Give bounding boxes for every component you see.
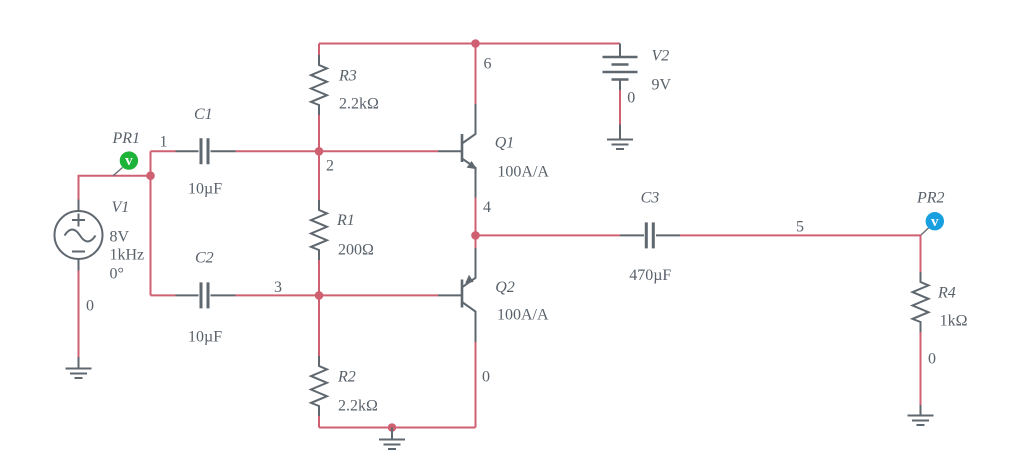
ground bottom middle [379,428,405,450]
wire net1: to C1 left [151,150,176,152]
wire net4: Q1 emitter to Q2 emitter [475,198,477,249]
svg-text:V2: V2 [652,48,670,65]
capacitor C3 [620,222,680,248]
svg-text:6: 6 [484,56,492,73]
svg-text:R3: R3 [338,67,357,84]
svg-text:0: 0 [928,351,936,368]
svg-text:R4: R4 [937,285,956,302]
transistor Q1 [438,104,477,198]
wire net2: C1 right to Q1 base [236,150,439,152]
resistor R3 [311,55,327,115]
wire net1: V1 top to junction [79,176,151,200]
svg-text:1: 1 [160,134,168,151]
junction node 0 (bottom rail) [388,423,397,432]
svg-text:1kΩ: 1kΩ [940,313,968,330]
svg-text:2: 2 [326,158,334,175]
junction node 4 [471,231,480,240]
wire net2: R3 bottom to R1 top [318,115,320,200]
wire net0: R4 bottom [920,332,922,405]
svg-text:Q2: Q2 [495,279,515,296]
ground under V1 [66,357,92,378]
wire net3: R1 bottom to R2 top [318,260,320,356]
svg-text:1kHz: 1kHz [110,247,145,264]
svg-text:4: 4 [483,199,491,216]
svg-text:v: v [125,153,133,169]
wire net0: V1 bottom [78,271,80,358]
svg-text:0: 0 [86,298,94,315]
svg-text:C1: C1 [194,106,213,123]
svg-text:5: 5 [796,219,804,236]
svg-text:100A/A: 100A/A [497,307,549,324]
voltage source V1 [55,200,103,271]
svg-text:3: 3 [274,279,282,296]
svg-text:R1: R1 [336,212,355,229]
capacitor C2 [176,282,236,308]
transistor Q2 [438,248,476,342]
svg-text:V1: V1 [112,199,130,216]
capacitor C1 [176,138,236,164]
svg-text:C2: C2 [195,250,214,267]
svg-text:100A/A: 100A/A [497,163,549,180]
wire net3: C2 left [151,294,176,296]
svg-text:2.2kΩ: 2.2kΩ [339,96,379,113]
svg-text:0: 0 [482,369,490,386]
wire net0: R2 bottom stub [318,416,320,428]
svg-text:R2: R2 [337,369,356,386]
svg-text:C3: C3 [641,190,660,207]
svg-text:9V: 9V [652,77,672,94]
svg-text:Q1: Q1 [495,134,515,151]
wire net1: vertical C1 to C2 [150,151,152,295]
svg-text:470µF: 470µF [629,267,671,284]
svg-text:PR2: PR2 [916,190,945,207]
svg-text:8V: 8V [110,229,130,246]
svg-text:v: v [931,214,939,230]
svg-text:0°: 0° [110,265,124,282]
ground under V2 [607,125,633,150]
resistor R2 [311,356,327,416]
junction node 3 [315,291,324,300]
wire net0: bottom rail [319,427,476,429]
svg-text:0: 0 [627,90,635,107]
resistor R1 [311,200,327,260]
wire net5: C3 right to R4 top [680,235,921,272]
svg-text:PR1: PR1 [112,130,141,147]
wire net6: top rail [319,43,620,45]
svg-text:2.2kΩ: 2.2kΩ [338,398,378,415]
wire net0: V2 bottom [619,90,621,125]
wire net3: C2 right to Q2 base [236,294,439,296]
wire net0: Q2 collector down [475,342,477,428]
ground under R4 [908,405,934,425]
probe PR2 [921,212,944,235]
svg-text:10µF: 10µF [188,329,222,346]
wire net4: to C3 left [476,234,621,236]
battery V2 [603,44,638,91]
junction node 1 [146,171,155,180]
wire net2: R3 top stub [318,44,320,56]
wire net6: vertical to Q1 collector [475,44,477,105]
resistor R4 [913,272,929,332]
svg-text:200Ω: 200Ω [338,242,374,259]
junction node 6 [471,39,480,48]
probe PR1 [113,151,138,175]
junction node 2 [315,147,324,156]
svg-text:10µF: 10µF [188,181,222,198]
